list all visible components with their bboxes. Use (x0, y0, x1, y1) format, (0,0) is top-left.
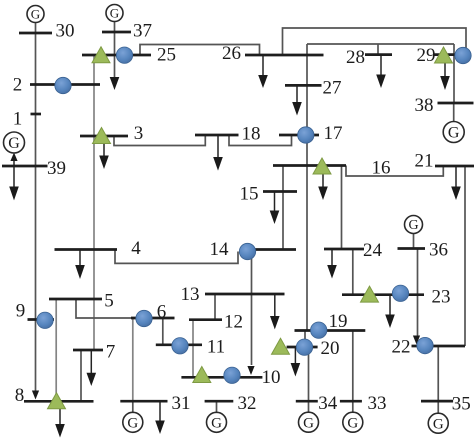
bus 33 (340, 400, 362, 403)
bus 24 (324, 248, 364, 251)
bus 27 (285, 84, 322, 87)
bus 26 (245, 54, 324, 57)
svg-text:30: 30 (56, 20, 75, 41)
load arrow bus 20 (291, 347, 301, 377)
wire 5-8 (55, 299, 57, 401)
arrowhead at bus 8 (32, 391, 39, 400)
bus 16 (273, 164, 346, 167)
load arrow bus 28 (376, 55, 386, 88)
svg-text:G: G (127, 416, 138, 432)
wire 13-12 (214, 294, 216, 320)
bus 14 (240, 248, 296, 251)
marker circle bus 11 (172, 338, 188, 354)
marker circle bus 2 (55, 77, 71, 93)
svg-text:38: 38 (415, 95, 434, 116)
svg-text:8: 8 (15, 385, 25, 406)
svg-text:4: 4 (131, 238, 141, 259)
bus 17 (279, 134, 319, 137)
wire 19-33 (352, 331, 354, 402)
svg-text:23: 23 (432, 286, 451, 307)
bus 35 (421, 400, 453, 403)
load arrow bus 15 (270, 192, 280, 225)
generator arrow bus 39 (10, 153, 17, 167)
bus 19 (295, 329, 366, 332)
svg-text:18: 18 (242, 123, 261, 144)
PMU triangle bus 20 (272, 338, 290, 354)
wire 25-26 (140, 45, 260, 56)
PMU triangle bus 10 (193, 367, 211, 383)
generator G38 (443, 122, 464, 143)
load arrow bus 8 (55, 408, 65, 438)
svg-text:28: 28 (346, 47, 365, 68)
load arrow bus 24 (327, 249, 337, 279)
wire 5-6 (76, 299, 131, 318)
marker circle bus 17 (298, 127, 314, 143)
svg-text:31: 31 (172, 393, 191, 414)
svg-text:15: 15 (240, 183, 259, 204)
generator G34 (299, 412, 319, 432)
svg-text:25: 25 (157, 44, 176, 65)
svg-text:19: 19 (329, 311, 348, 332)
bus 21 (435, 165, 474, 168)
bus 4 (55, 248, 118, 251)
svg-text:37: 37 (133, 20, 152, 41)
bus 1 (31, 113, 42, 116)
load arrow bus 4 (75, 250, 85, 280)
wire 6-31 (132, 318, 134, 401)
wire 29-38 (453, 44, 455, 103)
marker circle bus 29 (455, 47, 471, 63)
wire G38 stub (453, 103, 455, 122)
load arrow bus 23 (385, 295, 395, 328)
wire G30-30-2-1-39-9-8 (35, 23, 37, 391)
svg-text:G: G (408, 218, 418, 233)
wire 3-18 (114, 135, 205, 146)
wire G33 stub (352, 401, 354, 412)
svg-text:24: 24 (363, 240, 383, 261)
wire 14-13-10 (251, 251, 253, 365)
bus 7 (73, 349, 103, 352)
wire 36-23 (417, 249, 419, 337)
wire 20-34 (308, 347, 310, 401)
bus 3 (80, 135, 128, 138)
wire 26-27-17-16-19 (306, 44, 308, 331)
svg-text:22: 22 (392, 336, 411, 357)
load arrow bus 31 (155, 401, 165, 435)
PMU triangle bus 16 (313, 158, 331, 174)
load arrow bus 16 (318, 174, 328, 200)
wire 16-24 (341, 166, 343, 250)
svg-text:G: G (448, 124, 460, 141)
svg-text:16: 16 (372, 157, 391, 178)
bus 30 (19, 32, 52, 35)
svg-text:G: G (303, 415, 314, 431)
wire G31 stub (132, 401, 134, 412)
wire 21-22 (464, 166, 466, 346)
arrowhead at bus 10 (247, 366, 254, 375)
generator G31 (123, 412, 143, 432)
marker circle bus 25 (116, 47, 132, 63)
bus 37 (102, 31, 131, 34)
bus 18 (195, 134, 239, 137)
bus 12 (189, 318, 222, 321)
generator G35 (428, 413, 448, 433)
wire 24-23 (352, 249, 354, 295)
load arrow bus 7 (87, 350, 97, 386)
PMU triangle bus 23 (361, 286, 379, 302)
bus 28 (365, 53, 392, 56)
wire G32 stub (216, 401, 218, 412)
bus 25 (82, 54, 151, 57)
load arrow bus 21 (451, 166, 461, 200)
wire 6-11 (162, 318, 164, 345)
load arrow bus 27 (292, 85, 302, 115)
svg-text:G: G (433, 416, 444, 432)
wire 26-29 (283, 28, 467, 55)
bus 36 (398, 247, 426, 250)
bus 8 (24, 400, 94, 403)
arrowhead at bus 22 (413, 336, 420, 345)
wire 19-20 (304, 331, 306, 348)
wire 7-8 (80, 350, 82, 401)
wire 28 tap (377, 44, 379, 55)
svg-text:13: 13 (181, 284, 200, 305)
wire G35 stub (437, 401, 439, 413)
svg-text:G: G (211, 416, 222, 432)
load arrow bus 13 (270, 294, 280, 329)
bus 6 (131, 317, 175, 320)
svg-text:26: 26 (222, 43, 241, 64)
bus 32 (205, 400, 234, 403)
svg-text:6: 6 (157, 301, 167, 322)
marker circle bus 14 (239, 243, 255, 259)
svg-text:21: 21 (415, 150, 434, 171)
svg-text:G: G (347, 415, 358, 431)
svg-text:34: 34 (318, 393, 338, 414)
load arrow bus 3 (99, 143, 109, 169)
marker circle bus 9 (37, 312, 53, 328)
wire G37-37-25 (114, 22, 116, 78)
bus 15 (263, 190, 297, 193)
PMU triangle bus 8 (48, 393, 66, 409)
PMU triangle bus 25 (92, 47, 110, 63)
wire 12-10 (192, 320, 194, 378)
bus 13 (205, 293, 285, 296)
bus 2 (30, 83, 100, 86)
svg-text:G: G (31, 6, 40, 21)
svg-text:20: 20 (321, 338, 340, 359)
load arrow bus 39 (9, 166, 19, 200)
svg-text:12: 12 (224, 311, 243, 332)
PMU triangle bus 29 (435, 47, 453, 63)
bus 34 (296, 400, 318, 403)
svg-text:36: 36 (429, 239, 448, 260)
marker circle bus 22 (417, 337, 433, 353)
marker circle bus 6 (136, 310, 152, 326)
bus 29 (434, 53, 466, 56)
marker circle bus 10 (224, 367, 240, 383)
PMU triangle bus 3 (93, 128, 111, 144)
svg-text:2: 2 (13, 74, 23, 95)
svg-text:9: 9 (16, 300, 26, 321)
svg-text:10: 10 (262, 367, 281, 388)
svg-text:33: 33 (368, 393, 387, 414)
marker circle bus 20 (296, 339, 312, 355)
load arrow bus 29 (440, 63, 450, 90)
bus 31 (120, 400, 167, 403)
svg-text:G: G (110, 5, 119, 20)
bus 39 (2, 165, 48, 168)
wire 16-15-14 (282, 166, 284, 250)
bus 9 (28, 318, 55, 321)
bus 5 (49, 298, 102, 301)
wire 4-14 (115, 250, 238, 264)
bus 10 (181, 376, 262, 379)
load arrow bus 26 (258, 55, 268, 88)
generator G37 (106, 5, 123, 22)
wire 16-21 (346, 166, 443, 177)
bus 11 (156, 343, 202, 346)
svg-text:11: 11 (207, 336, 225, 357)
svg-text:7: 7 (106, 341, 116, 362)
bus 22 (412, 345, 466, 348)
bus 20 (287, 346, 318, 349)
wire 26-28-29 (307, 43, 454, 45)
wire G36 stub (413, 234, 415, 249)
wire 18-17 (229, 135, 292, 146)
svg-text:17: 17 (324, 123, 343, 144)
generator G39 (4, 132, 25, 153)
svg-text:32: 32 (238, 393, 257, 414)
svg-text:39: 39 (47, 158, 66, 179)
svg-text:1: 1 (13, 108, 23, 129)
marker circle bus 23 (392, 285, 408, 301)
svg-text:29: 29 (417, 45, 436, 66)
svg-text:14: 14 (210, 239, 230, 260)
generator G36 (405, 216, 423, 234)
generator G33 (343, 412, 363, 432)
svg-text:35: 35 (452, 393, 471, 414)
svg-text:G: G (8, 135, 20, 152)
bus 23 (342, 293, 424, 296)
load arrow bus 25 (110, 77, 120, 90)
wire 25-2-3-4-5-7 (93, 56, 95, 350)
bus 38 (438, 102, 474, 105)
marker circle bus 19 (311, 322, 327, 338)
wire G34 stub (308, 401, 310, 412)
wire 22-35 (437, 346, 439, 401)
generator G32 (207, 412, 227, 432)
generator G30 (27, 6, 44, 23)
load arrow bus 18 (213, 135, 223, 171)
svg-text:27: 27 (323, 77, 342, 98)
svg-text:5: 5 (104, 290, 114, 311)
svg-text:3: 3 (134, 123, 144, 144)
